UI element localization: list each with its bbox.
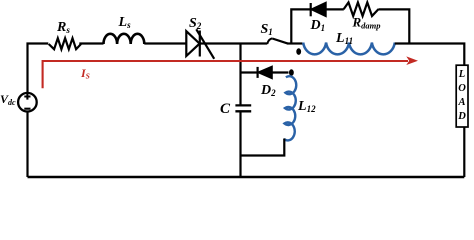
diode D2 xyxy=(258,67,277,98)
switch S1 xyxy=(261,22,288,44)
svg-text:D1: D1 xyxy=(310,18,326,33)
svg-text:Vdc: Vdc xyxy=(0,92,16,107)
svg-text:L11: L11 xyxy=(335,31,353,46)
svg-text:C: C xyxy=(220,101,231,117)
wire top-left from Vdc to Rs xyxy=(28,44,49,94)
wire Ls to S2 xyxy=(144,42,186,44)
svg-text:S2: S2 xyxy=(189,16,202,31)
wire S1 to L11 xyxy=(287,42,303,44)
wire S2 to S1 xyxy=(200,42,267,44)
resistor R2 Rdamp xyxy=(344,2,381,30)
inductor L11 xyxy=(303,31,395,54)
resistor R1 Rs xyxy=(49,20,81,49)
source Vdc xyxy=(0,92,37,111)
wire load to bottom xyxy=(463,127,465,177)
current arrow Is xyxy=(43,56,418,88)
svg-text:D: D xyxy=(457,111,466,122)
svg-text:O: O xyxy=(458,83,466,94)
thyristor S2 xyxy=(186,16,214,59)
svg-text:S1: S1 xyxy=(261,22,273,37)
wire capacitor branch top xyxy=(239,44,241,106)
svg-text:Rs: Rs xyxy=(56,20,70,35)
wire L11 to right corner and down to load xyxy=(395,44,465,66)
wire L12 return to capacitor branch xyxy=(241,139,285,156)
wire D2 stub xyxy=(241,71,259,73)
svg-text:IS: IS xyxy=(80,66,90,81)
svg-text:Rdamp: Rdamp xyxy=(352,15,381,31)
inductor L12 xyxy=(284,76,316,140)
load box xyxy=(456,65,468,127)
svg-text:Ls: Ls xyxy=(118,15,132,30)
diode D1 xyxy=(310,3,326,33)
wire D2 to L12 xyxy=(272,71,289,73)
wire Rs to Ls xyxy=(79,42,103,44)
node B junction dot xyxy=(289,69,294,76)
wire capacitor branch bottom xyxy=(239,112,241,178)
node A junction dot xyxy=(296,48,301,55)
capacitor C xyxy=(220,101,251,117)
svg-text:A: A xyxy=(457,97,465,108)
wire damp loop xyxy=(291,9,409,43)
inductor L1 Ls xyxy=(104,15,145,44)
wire bottom xyxy=(28,176,465,179)
wire Vdc to bottom xyxy=(26,112,28,178)
svg-text:L12: L12 xyxy=(297,99,316,114)
svg-text:D2: D2 xyxy=(260,83,276,98)
svg-text:L: L xyxy=(458,69,465,80)
